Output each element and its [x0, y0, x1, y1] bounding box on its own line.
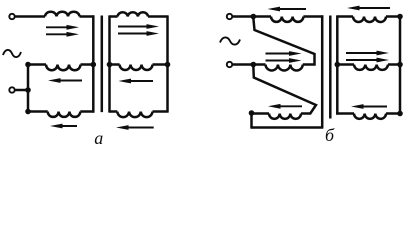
- arrow (current, left) above W3: [268, 104, 302, 109]
- winding L2 (middle left, humps down): [46, 65, 81, 71]
- junction dot W6 right edge: [397, 111, 403, 117]
- wire L1 to bus1: [80, 15, 95, 18]
- AC source symbol (tilde, diagram b): [220, 37, 240, 44]
- junction dot bus2 row2: [107, 62, 113, 68]
- wire bus3 to winding W5: [337, 63, 354, 66]
- winding W5 (middle right b, humps down): [354, 65, 388, 70]
- wire bus3 to winding W4: [337, 15, 353, 18]
- svg-text:а: а: [94, 128, 103, 148]
- wire bus2 to winding L6: [110, 110, 118, 113]
- wire T1 to winding L1: [15, 15, 45, 18]
- right side vertical of left circuit b: [321, 15, 324, 127]
- winding W3 (bottom left b, humps down): [269, 114, 301, 119]
- arrow (current, right) above W5 upper: [346, 51, 389, 56]
- wire W6 to right edge: [386, 112, 400, 115]
- junction dot top right corner b: [397, 14, 403, 20]
- arrow (current, left) row3 right circuit: [116, 125, 154, 130]
- wire W4 to right edge: [386, 15, 400, 18]
- arrow (current, right) row1 upper: [46, 25, 79, 30]
- crossing wire from node A to W2 right end (zigzag): [253, 18, 314, 65]
- junction dot node 1: [25, 62, 31, 68]
- wire node A to winding W1: [253, 15, 271, 18]
- bus3 (left side of right circuit, diagram b): [336, 15, 339, 114]
- winding L1 (top left, humps up): [45, 12, 80, 17]
- wire node3 to winding L3: [28, 110, 48, 113]
- junction dot bus3 row2: [335, 62, 341, 68]
- wire bus2 to winding L4: [110, 15, 118, 18]
- node column wire (left): [27, 65, 30, 112]
- core line (middle, diagram b): [329, 16, 332, 119]
- terminal T2 (diagram b): [227, 62, 232, 67]
- arrow (current, left) above W1: [268, 7, 307, 12]
- bus2 (left side of right circuit, diagram a): [108, 15, 111, 112]
- arrow (current, left) row2 right circuit: [119, 79, 154, 84]
- arrow (current, right) row1 upper right circuit: [118, 24, 159, 29]
- wire L6 to right edge: [153, 110, 168, 113]
- winding W1 (top left b, humps down): [271, 17, 303, 22]
- wire T2 to node column: [15, 89, 28, 92]
- wire T2 to node B: [233, 63, 253, 66]
- winding L3 (bottom left, humps down): [48, 112, 81, 117]
- bus1 (right side of left circuit, diagram a): [92, 15, 95, 112]
- junction dot node 3: [25, 109, 31, 115]
- core line (middle, diagram a): [101, 16, 104, 113]
- arrow (current, left) row3: [50, 124, 77, 129]
- terminal T1 (diagram a): [9, 14, 14, 19]
- crossing wire from node B to W3 right end (zigzag): [253, 66, 316, 114]
- right edge (right circuit, diagram b): [399, 17, 402, 114]
- wire node B to winding W2: [253, 63, 265, 66]
- winding W2 (middle left b, humps down): [266, 65, 303, 71]
- arrow (current, right) row1 lower right circuit: [118, 31, 159, 36]
- arrow (current, right) row1 lower: [46, 32, 79, 37]
- junction dot node B: [251, 62, 257, 68]
- wire bus2 to winding L5: [110, 63, 120, 66]
- arrow (current, right) above W2 lower: [266, 58, 302, 63]
- svg-text:б: б: [325, 125, 335, 145]
- arrow (current, right) above W5 lower: [346, 58, 389, 63]
- junction dot node 2: [25, 87, 31, 93]
- arrow (current, left) row2: [48, 78, 82, 83]
- winding W4 (top right b, humps down): [353, 17, 386, 23]
- wire bus3 to winding W6: [336, 112, 354, 115]
- winding L4 (top right, humps up): [118, 12, 148, 16]
- junction dot L2-bus1: [91, 62, 97, 68]
- wire W1 to right side: [303, 15, 323, 18]
- right edge (right circuit, diagram a): [166, 15, 169, 112]
- junction dot node C: [249, 110, 255, 116]
- wire L5 to right edge: [153, 63, 168, 66]
- junction dot node A: [251, 14, 257, 20]
- wire W5 to right edge: [388, 63, 400, 66]
- wire node C down to bottom return: [250, 114, 253, 129]
- wire L2 to bus1: [81, 63, 94, 66]
- arrow (current, left) above W6: [351, 104, 387, 109]
- arrow (current, right) above W2 upper: [266, 51, 302, 56]
- arrow (current, left) above W4: [347, 6, 390, 11]
- winding L5 (middle right, humps down): [120, 65, 153, 70]
- wire L4 to right edge: [148, 15, 168, 18]
- wire node1 to winding L2: [28, 63, 46, 66]
- wire T1 to node A: [233, 15, 253, 18]
- wire L3 to bus1: [80, 110, 94, 113]
- junction dot W5 right edge: [397, 62, 403, 68]
- bottom return wire (left circuit b): [252, 126, 324, 129]
- terminal T2 (diagram a): [9, 87, 14, 92]
- winding W6 (bottom right b, humps down): [354, 114, 386, 119]
- junction dot L5 right edge: [165, 62, 171, 68]
- winding L6 (bottom right, humps down): [117, 112, 152, 118]
- wire node C to winding W3: [252, 112, 270, 115]
- terminal T1 (diagram b): [227, 14, 232, 19]
- AC source symbol (tilde, diagram a): [3, 50, 21, 57]
